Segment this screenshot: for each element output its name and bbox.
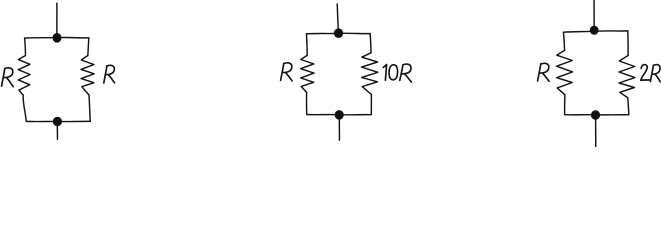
label R value left c3: [538, 63, 550, 81]
wire top stub c2: [337, 4, 338, 30]
label R value left c2: [281, 63, 293, 81]
wire right lower c3: [628, 98, 629, 115]
label 2R value right c3: [641, 65, 661, 82]
wire top c3: [564, 31, 628, 32]
wire top c1: [25, 36, 89, 39]
wire bottom stub c3: [595, 120, 597, 148]
wire top stub c3: [593, 0, 595, 26]
resistor R zigzag left c2: [301, 55, 314, 92]
resistor 10R zigzag right c2: [362, 53, 378, 95]
node dot bottom c1: [53, 117, 62, 126]
wire right c3: [627, 31, 629, 56]
label R value right c1: [104, 65, 115, 83]
wire left c2: [306, 34, 309, 56]
wire left lower c1: [23, 95, 26, 121]
node dot top c2: [334, 28, 343, 38]
label 10R value right c2: [383, 64, 411, 82]
resistor R zigzag left c3: [557, 50, 573, 95]
wire left lower c2: [306, 93, 308, 115]
wire bottom stub c1: [56, 125, 58, 139]
wire left c1: [24, 38, 27, 55]
wire right lower c2: [370, 95, 372, 115]
wire right lower c1: [89, 95, 90, 121]
wire top c2: [307, 32, 371, 35]
wire bottom c3: [565, 114, 629, 116]
wire left lower c3: [564, 95, 566, 115]
resistor R2 zigzag right c1: [81, 56, 94, 96]
wire right c1: [88, 38, 89, 56]
node dot bottom c2: [335, 110, 344, 120]
wire right c2: [369, 34, 372, 53]
wire top stub c1: [56, 3, 58, 34]
resistor 2R zigzag right c3: [619, 56, 635, 98]
node dot top c1: [53, 33, 62, 43]
node dot top c3: [590, 26, 599, 35]
label R value left c1: [2, 68, 14, 87]
wire left c3: [564, 32, 565, 50]
node dot bottom c3: [591, 110, 600, 120]
wire bottom c2: [307, 114, 372, 116]
resistor R1 zigzag left c1: [18, 56, 30, 96]
wire bottom stub c2: [338, 119, 340, 140]
wire bottom c1: [26, 120, 90, 122]
